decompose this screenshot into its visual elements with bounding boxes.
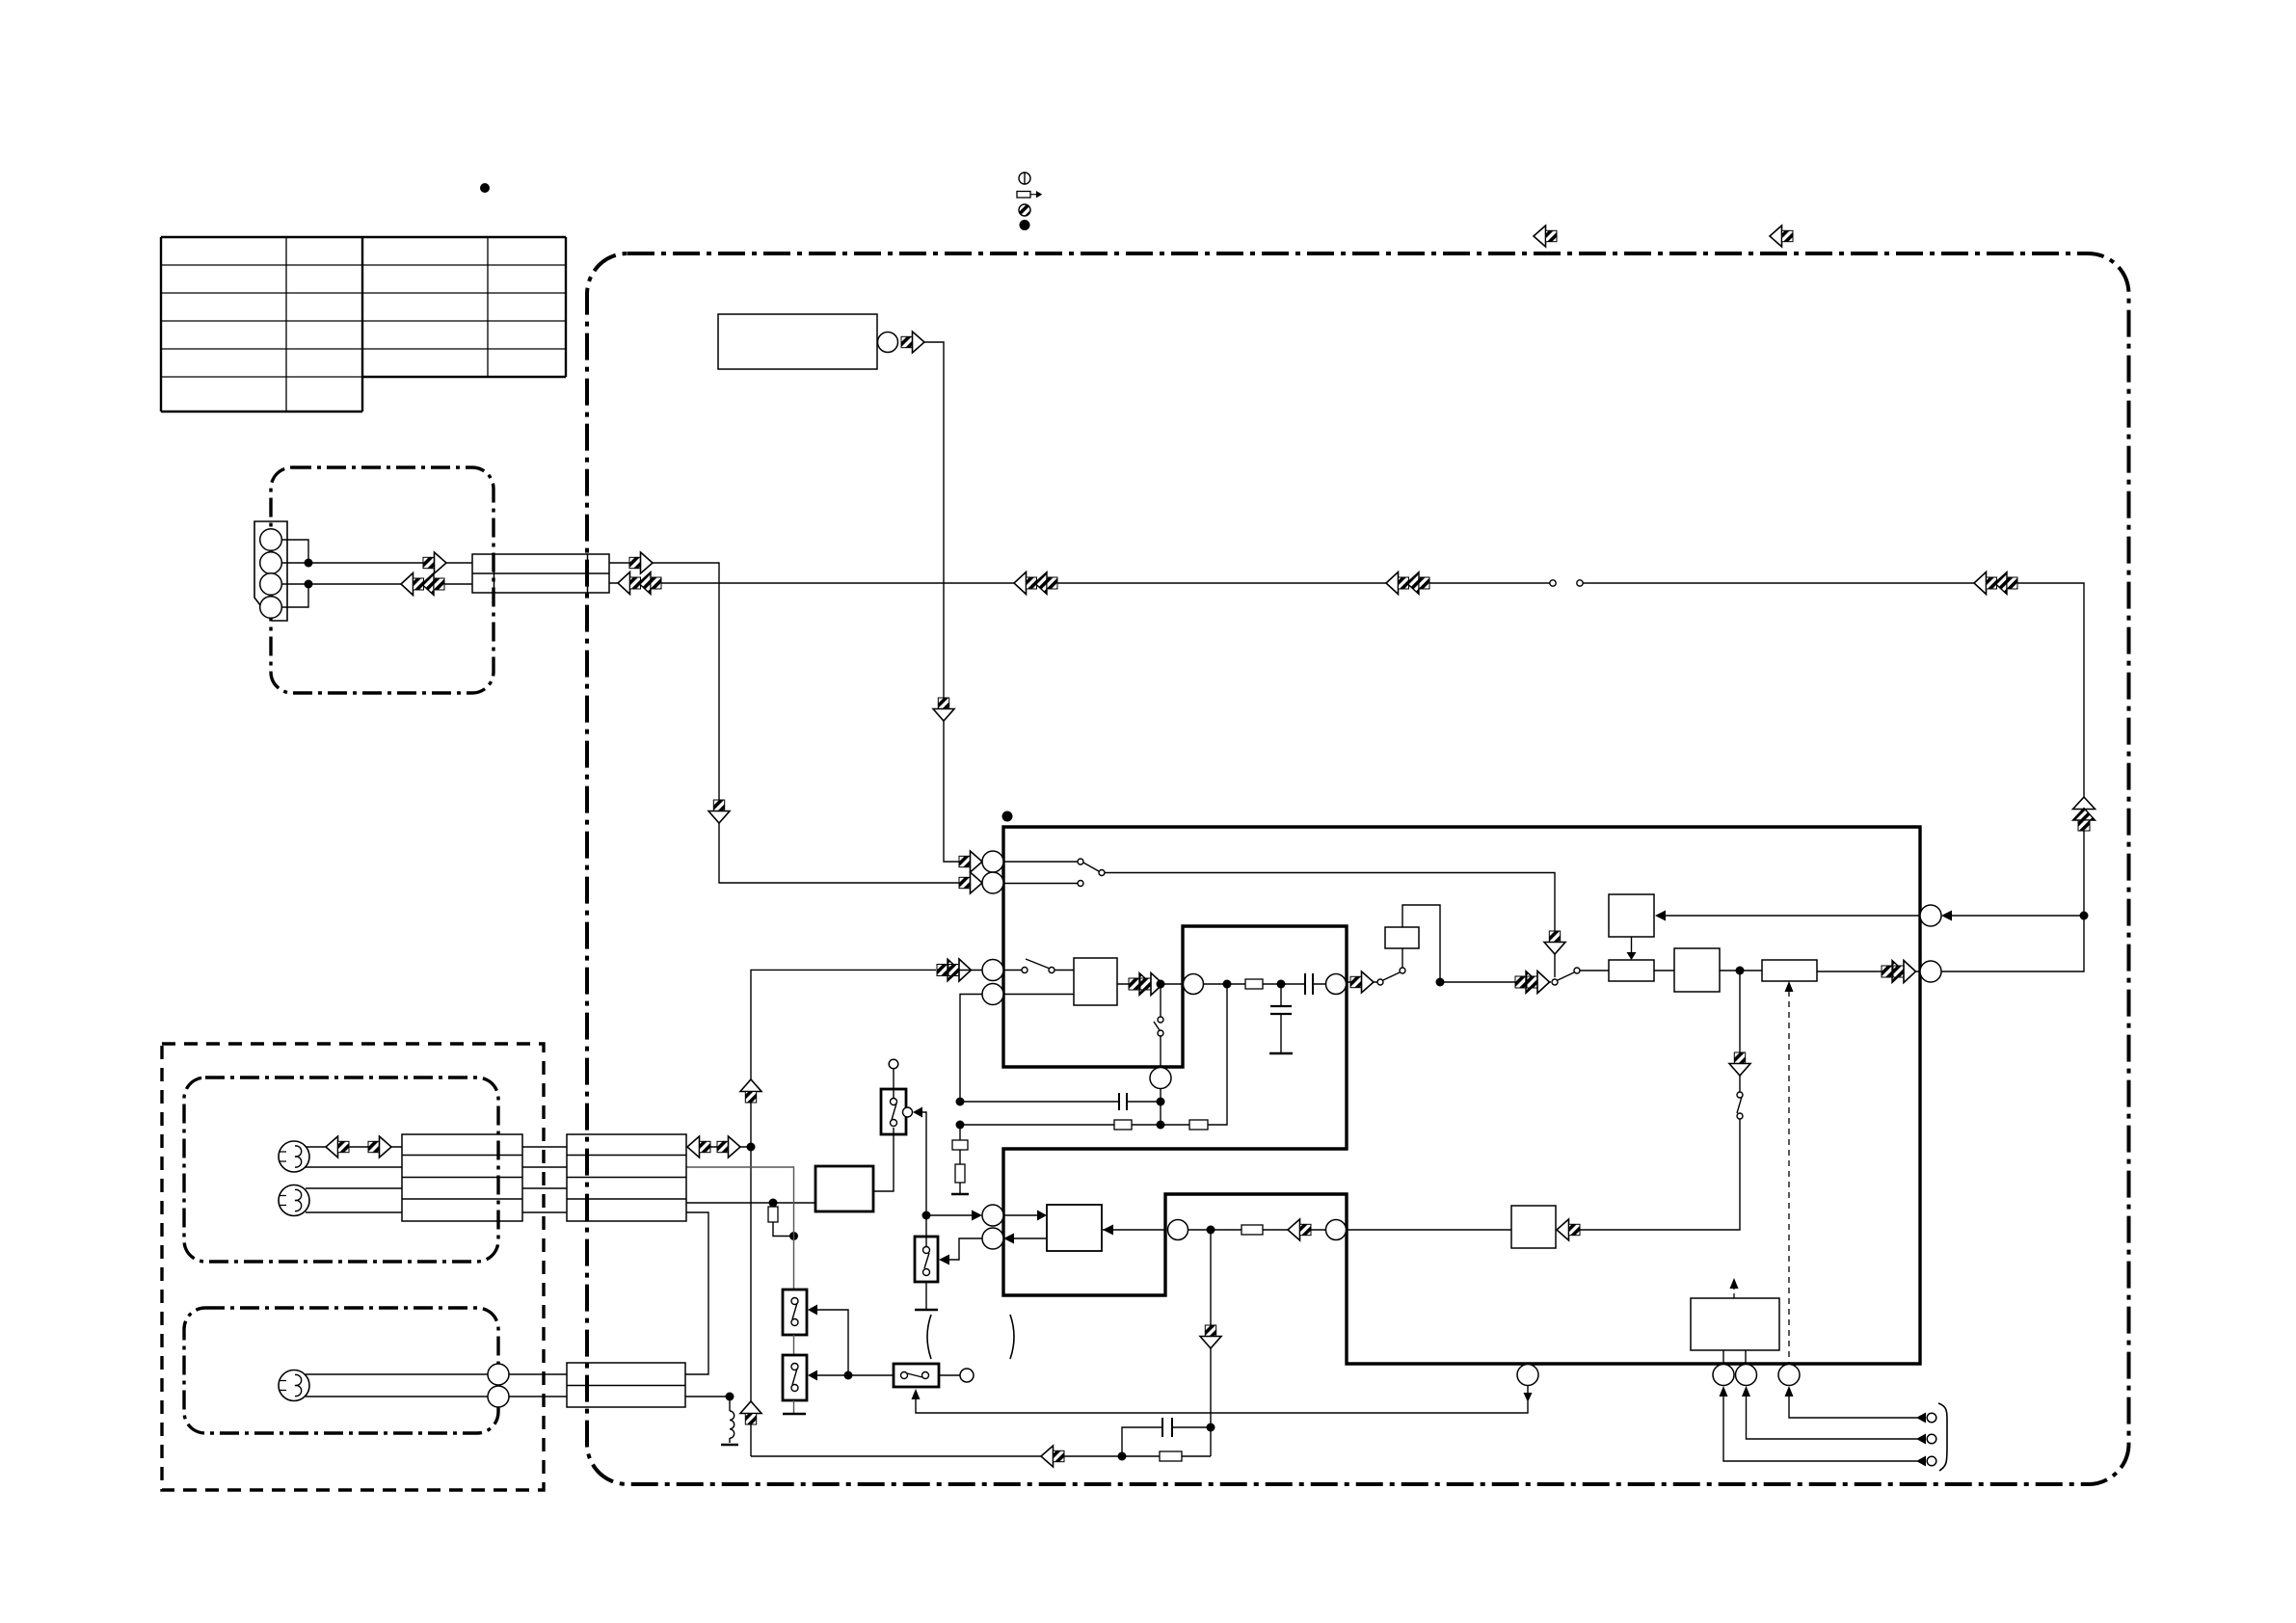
lamp LP2 xyxy=(279,1185,309,1216)
A1 feedback wire from pin T xyxy=(1665,915,1920,917)
node osc 2 xyxy=(956,1121,965,1130)
AMP3 input wire xyxy=(686,1202,815,1204)
arrowhead into pin T xyxy=(1941,911,1952,921)
wire2 arrows pair near filter xyxy=(618,572,661,595)
arrow out of oscillator xyxy=(901,332,924,353)
pin T (REC out) xyxy=(1920,905,1941,926)
arrowhead into SW4 xyxy=(808,1370,817,1381)
legend: filled circle xyxy=(1020,220,1030,230)
osc chain down xyxy=(959,1125,961,1193)
bias resistor wires xyxy=(773,1203,794,1237)
chain wire segment xyxy=(1204,983,1326,985)
choke coil xyxy=(729,1397,731,1443)
SW1 contact b xyxy=(891,1120,897,1127)
arrow in pair on RF return xyxy=(401,573,444,596)
jack contact 1 xyxy=(1927,1413,1936,1423)
mute switch contact b xyxy=(1158,1030,1163,1036)
A1 to B1 control arrow xyxy=(1631,937,1633,952)
shunt cap plates xyxy=(1270,1006,1292,1014)
switch SW5 box xyxy=(894,1364,939,1387)
wire S2 to block S xyxy=(1055,970,1074,971)
SW2 ground bar xyxy=(915,1309,938,1312)
node A (RF hot) xyxy=(305,559,313,568)
jack wire c2 xyxy=(1747,1397,1918,1439)
lamp LP3 xyxy=(279,1370,309,1401)
arrowhead up into c1 xyxy=(1720,1386,1728,1397)
node to SW2 drop xyxy=(925,1215,927,1248)
arrowhead up from servo xyxy=(1730,1278,1739,1289)
fb capacitor branch xyxy=(1122,1427,1211,1456)
SW3-SW4 link xyxy=(793,1335,795,1355)
node rec/pb xyxy=(922,1211,931,1220)
block D1 (level) xyxy=(1762,960,1817,981)
note bullet xyxy=(480,183,490,193)
arrow down on feedback drop xyxy=(1200,1325,1221,1348)
arrowhead out of pin4L xyxy=(1003,1234,1014,1244)
SW1 lever xyxy=(892,1104,896,1120)
wire2 long run xyxy=(609,583,2084,916)
rec switch lever xyxy=(1383,972,1400,980)
node chain 1 xyxy=(1223,980,1232,989)
node S out xyxy=(1157,980,1165,989)
SW2 contact b xyxy=(923,1269,930,1276)
pin5 on V3 edge xyxy=(1168,1220,1188,1240)
wire into pin3 xyxy=(959,970,982,971)
SW4 contact a xyxy=(791,1364,798,1370)
IC pin 3L xyxy=(982,1205,1003,1226)
arrow down on osc drop xyxy=(933,698,954,721)
double arrow before mode switch xyxy=(1515,971,1550,994)
block C1 xyxy=(1674,948,1720,992)
bullet dot at IC corner xyxy=(1002,811,1013,822)
switch SW4 box xyxy=(783,1355,807,1400)
arrow out on RF hot xyxy=(423,552,446,573)
bias resistor R d xyxy=(768,1207,778,1222)
oscillator block xyxy=(718,314,877,369)
border arrow marker 1 xyxy=(1534,226,1557,247)
mute switch drop xyxy=(1160,984,1161,1017)
board link wires xyxy=(522,1147,567,1212)
arrow after V5 pin xyxy=(1350,971,1374,993)
test point circle xyxy=(889,1059,898,1069)
wire RF return to filter xyxy=(281,583,472,585)
node res 1 xyxy=(1157,1098,1165,1106)
pin U (line out) xyxy=(1920,961,1941,982)
arrowhead down from pin X xyxy=(1524,1393,1533,1402)
double arrow after block S xyxy=(1129,973,1163,996)
switch SW3 box xyxy=(783,1290,807,1335)
fb wire to head riser xyxy=(751,1455,1122,1457)
drum arc left xyxy=(927,1315,931,1359)
pin c3 xyxy=(1778,1365,1800,1386)
fb resistor branch xyxy=(1122,1455,1211,1457)
resistor R b xyxy=(1241,1225,1263,1235)
connector block 3 xyxy=(567,1363,685,1407)
SW5 contact a xyxy=(901,1372,908,1379)
node T junction xyxy=(2080,912,2089,920)
node osc 1 xyxy=(956,1098,965,1106)
shunt capacitor to ground xyxy=(1280,984,1282,1052)
node SW4 line xyxy=(844,1371,853,1380)
SW3 lever xyxy=(792,1303,797,1319)
arrow into block E xyxy=(1557,1219,1580,1240)
shield box 3 (lamp block lower) xyxy=(184,1308,498,1433)
SW4 ground bar xyxy=(783,1413,806,1416)
lamp common link down xyxy=(685,1212,708,1374)
node head line xyxy=(747,1143,756,1152)
LP2 wires xyxy=(306,1188,402,1212)
servo block xyxy=(1691,1298,1779,1350)
wire B1 to C1 xyxy=(1654,970,1674,971)
IC main body outline xyxy=(1003,827,1920,1364)
pin on V6 edge xyxy=(1184,974,1204,995)
node res 2 xyxy=(1157,1121,1165,1130)
rec switch contact common xyxy=(1377,979,1383,985)
SW3 contact a xyxy=(791,1298,798,1305)
resistor R f xyxy=(1189,1120,1208,1130)
pin on V5 edge xyxy=(1326,974,1347,995)
jack contact 2 xyxy=(1927,1434,1936,1444)
SW3 wire to SW4 wire xyxy=(817,1310,848,1375)
wire up to relay RLY xyxy=(1402,948,1403,968)
SW5 lever xyxy=(907,1373,922,1377)
J101 pin 4 xyxy=(260,597,282,619)
drum arc right xyxy=(1010,1315,1014,1359)
wire node to mode contact xyxy=(1440,981,1551,983)
switch SW2 box xyxy=(915,1237,938,1282)
switch S2 lever xyxy=(1026,959,1050,969)
wire over relay to node xyxy=(1402,905,1440,982)
IC pin 4 xyxy=(982,984,1003,1005)
wire node to SW5 xyxy=(817,1374,894,1376)
wire J101 pin1 to node xyxy=(281,540,308,563)
IC pin 3 xyxy=(982,960,1003,981)
pin c1 xyxy=(1713,1365,1734,1386)
shield can box 1 (tuner input shield) xyxy=(271,467,494,693)
SW5 side wire xyxy=(939,1374,960,1376)
jack wire c3 xyxy=(1789,1397,1917,1418)
head signal riser xyxy=(751,970,936,1456)
shield pass circle 2 xyxy=(488,1386,509,1407)
border arrow marker 2 xyxy=(1770,226,1793,247)
mode switch common xyxy=(1552,979,1558,985)
lamp LP1 xyxy=(279,1141,309,1172)
double arrow before pin U xyxy=(1882,961,1916,983)
parts table xyxy=(161,237,566,412)
wire E to pin6 xyxy=(1347,1229,1512,1231)
resonator pin drop xyxy=(1160,1089,1161,1126)
arrow out after filter wire1 xyxy=(629,552,653,573)
block AMP3 xyxy=(815,1166,873,1211)
SW2 contact a xyxy=(923,1247,930,1254)
start sensor wire xyxy=(685,1396,730,1397)
wire pin3L to AMP2 xyxy=(1003,1214,1037,1216)
wire2 switch contact right xyxy=(1577,580,1583,586)
legend: test point arrow xyxy=(1017,192,1030,199)
arrowhead into A1 xyxy=(1655,911,1666,921)
node B (RF gnd) xyxy=(305,580,313,589)
shunt cap ground bar xyxy=(1269,1052,1293,1055)
relay RLY box xyxy=(1385,927,1419,948)
SW1 contact a xyxy=(891,1099,897,1105)
J101 pin 3 xyxy=(260,573,282,596)
block B1 xyxy=(1609,960,1654,981)
switch S2 contact b xyxy=(1049,968,1055,973)
connector block 2 xyxy=(567,1134,686,1221)
wire2 arrows pair mid-left xyxy=(1014,572,1057,595)
block S output wire xyxy=(1117,983,1183,985)
LP3 wires xyxy=(306,1374,567,1397)
SW3 contact b xyxy=(791,1319,798,1326)
arrowhead up into SW5 xyxy=(912,1389,921,1399)
lamp arrow right xyxy=(368,1136,391,1157)
osc vertical to pin4 xyxy=(960,995,982,1103)
pin4L outside loop to SW2 xyxy=(949,1238,982,1260)
arrowhead up into c3 xyxy=(1785,1386,1794,1397)
jack contact 3 xyxy=(1927,1456,1936,1466)
ceramic resonator element xyxy=(952,1140,968,1150)
pin c2 xyxy=(1736,1365,1757,1386)
series capacitor plates xyxy=(1305,973,1313,995)
arrowhead up into D1 xyxy=(1785,981,1794,992)
SW5 feed wire from pin X xyxy=(916,1399,1528,1413)
wire mode switch to B1 xyxy=(1580,970,1609,971)
filter FL101 body xyxy=(472,554,609,593)
resistor R e xyxy=(1114,1120,1132,1130)
wire S1 common across IC xyxy=(1105,873,1555,978)
mute switch contact a xyxy=(1158,1017,1163,1023)
arrow down on mute drop xyxy=(1729,1052,1750,1076)
wire SW1 common to node xyxy=(922,1112,926,1215)
pin X wire xyxy=(1527,1385,1529,1394)
mute switch lever xyxy=(1154,1022,1160,1030)
switch S2 contact a xyxy=(1022,968,1028,973)
arrowhead up into c2 xyxy=(1742,1386,1750,1397)
wire node to pin3L xyxy=(926,1214,972,1216)
block AMP2 xyxy=(1047,1205,1102,1251)
SW1 common side contact xyxy=(903,1107,913,1117)
res top wire with cap xyxy=(960,1101,1161,1103)
arrow left on head line xyxy=(687,1136,710,1157)
block E xyxy=(1511,1206,1556,1248)
pin2 internal stub xyxy=(1003,883,1078,885)
wire AMP2 out to pin4L xyxy=(1013,1237,1047,1239)
arrowhead into jack 1 xyxy=(1916,1413,1926,1423)
wire RF hot to filter xyxy=(281,562,472,564)
servo to pin c1 xyxy=(1722,1350,1724,1364)
arrow down on wire1 drop xyxy=(708,800,730,823)
mute switch contact b xyxy=(1737,1113,1743,1119)
switch S1 contact b xyxy=(1078,881,1083,887)
wire node T to pin T xyxy=(1951,915,2084,917)
arrow right on head line xyxy=(717,1136,740,1157)
coil ground bar xyxy=(721,1444,738,1447)
mode switch lever xyxy=(1558,972,1574,980)
wire to resonator pin xyxy=(1160,1036,1161,1067)
main board border xyxy=(587,253,2129,1484)
IC pin 4L xyxy=(982,1228,1003,1249)
res bottom wire with resistor xyxy=(960,1124,1161,1126)
jack wire c1 xyxy=(1723,1397,1917,1461)
node fb top xyxy=(1207,1423,1215,1432)
lamp arrow left xyxy=(326,1136,349,1157)
arrowhead into SW1 common xyxy=(913,1107,922,1118)
wire1 filter to corner down to IC pin2 xyxy=(609,563,982,883)
arrow on fb wire xyxy=(1041,1446,1064,1467)
shield pass circle 1 xyxy=(488,1364,509,1385)
SW5 contact b xyxy=(922,1372,929,1379)
pin4 internal wire xyxy=(1003,994,1074,996)
SW5 side circle xyxy=(960,1369,974,1382)
up arrow on head riser low xyxy=(740,1401,761,1424)
LP1 wires xyxy=(306,1147,402,1167)
block S (bias amp) xyxy=(1074,958,1117,1005)
head line out of block2 xyxy=(686,1146,751,1148)
wire2 arrows pair right xyxy=(1974,572,2017,595)
arrow into IC pin2 xyxy=(959,872,982,893)
switch S1 lever xyxy=(1083,863,1099,871)
wire node T down to pin U xyxy=(1941,916,2084,971)
pin3 internal wire xyxy=(1003,970,1022,971)
node on sensor line xyxy=(789,1232,798,1240)
node fb left xyxy=(1118,1452,1127,1461)
wire oscillator to IC pin1 xyxy=(924,342,982,862)
IC pin 2 xyxy=(982,872,1003,893)
jack bracket xyxy=(1938,1403,1947,1471)
resistor R g xyxy=(955,1164,965,1183)
arrowhead into SW3 xyxy=(808,1305,817,1316)
mute drop wire xyxy=(1556,971,1740,1230)
arrow on notch wire xyxy=(1288,1219,1311,1240)
res link to chain node xyxy=(1161,984,1227,1125)
node AMP3 in xyxy=(769,1199,778,1208)
arrowhead into SW2 xyxy=(939,1255,949,1265)
resonator pin on IC edge xyxy=(1150,1068,1171,1089)
servo dashed stub up xyxy=(1733,1288,1735,1298)
resistor R a xyxy=(1245,979,1263,989)
servo to pin c2 xyxy=(1745,1350,1747,1364)
up arrow pair on wire2 drop xyxy=(2073,797,2096,831)
dashed sensor unit box xyxy=(162,1044,544,1490)
wire J101 pin4 to node xyxy=(281,584,308,607)
res cap plates xyxy=(1119,1093,1127,1110)
switch SW1 box xyxy=(881,1089,906,1134)
arrowhead into jack 2 xyxy=(1916,1434,1926,1445)
rec switch contact up xyxy=(1400,968,1405,973)
arrowhead into AMP2 xyxy=(1103,1225,1113,1236)
fb cap plates xyxy=(1162,1418,1172,1437)
legend: hatched circle xyxy=(1019,204,1030,216)
wire D1 to pin U xyxy=(1817,971,1920,972)
SW4 contact b xyxy=(791,1385,798,1392)
node chain 2 xyxy=(1277,980,1286,989)
J101 pin 1 xyxy=(260,529,282,551)
notch wire xyxy=(1188,1229,1326,1231)
connector block 1 xyxy=(402,1134,522,1221)
AMP3 output to SW1 xyxy=(873,1128,894,1191)
TP wire into SW1 xyxy=(893,1069,894,1099)
oscillator output pin xyxy=(878,333,898,353)
mute switch lever xyxy=(1737,1097,1742,1113)
mute switch contact a xyxy=(1737,1092,1743,1098)
wire2 arrows pair mid-right xyxy=(1386,572,1429,595)
sensor line from connector xyxy=(686,1167,794,1290)
wire2 switch contact left xyxy=(1550,580,1556,586)
double arrow into pin 3 xyxy=(937,959,972,981)
node notch xyxy=(1207,1226,1215,1235)
J101 pin 2 xyxy=(260,552,282,574)
block A1 (ALC) xyxy=(1609,894,1654,937)
node C1 out xyxy=(1736,967,1745,975)
legend: adjustment circle xyxy=(1019,173,1030,184)
pin1 internal wire to switch xyxy=(1003,861,1078,863)
arrow down to mode switch xyxy=(1544,931,1565,954)
resonator ground bar xyxy=(951,1193,969,1196)
node after relay xyxy=(1436,978,1445,987)
shield box 2 (lamp block upper) xyxy=(184,1078,498,1262)
resistor R c xyxy=(1160,1451,1182,1461)
arrowhead into AMP2 input xyxy=(1037,1211,1047,1221)
chain out of V5 xyxy=(1347,981,1377,983)
arrow into IC pin1 xyxy=(959,851,982,872)
mode switch contact up xyxy=(1574,968,1580,973)
SW4 lever xyxy=(792,1369,797,1385)
pin X on IC bottom xyxy=(1517,1365,1538,1386)
switch S1 contact a xyxy=(1078,859,1083,865)
connector J101 body xyxy=(254,521,287,621)
pin6 on V2 edge xyxy=(1326,1220,1347,1240)
switch S1 common xyxy=(1099,870,1105,876)
node start sensor xyxy=(726,1393,734,1401)
arrowhead into jack 3 xyxy=(1916,1456,1926,1467)
up arrow on head riser xyxy=(740,1079,761,1103)
SW2 lever xyxy=(924,1253,929,1268)
IC pin 1 xyxy=(982,851,1003,872)
arrowhead into pin3L xyxy=(972,1211,982,1221)
wire C1 to D1 xyxy=(1720,970,1762,971)
feedback drop xyxy=(1210,1230,1212,1456)
SW4 ground stub xyxy=(793,1400,795,1413)
dashed control line from D1 xyxy=(1788,991,1790,1364)
SW2 ground stub xyxy=(925,1282,927,1309)
wire pin5 into AMP2 xyxy=(1103,1229,1165,1231)
